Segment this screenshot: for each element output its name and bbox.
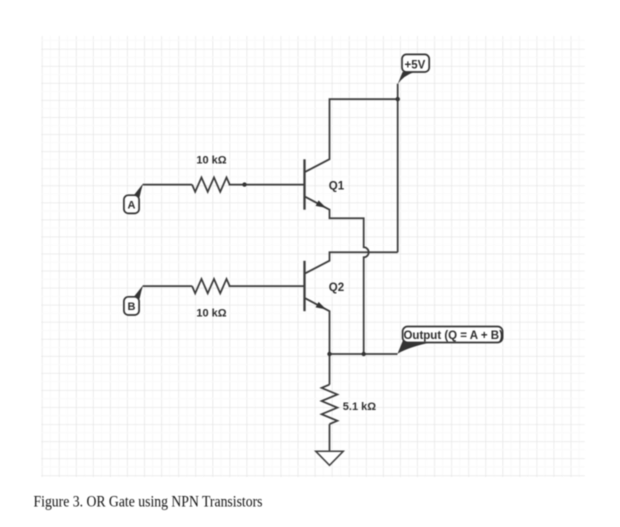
svg-text:5.1 kΩ: 5.1 kΩ [343,401,376,413]
svg-text:10 kΩ: 10 kΩ [196,307,226,319]
svg-text:+5V: +5V [405,59,426,71]
svg-text:10 kΩ: 10 kΩ [196,155,226,167]
svg-text:Output (Q = A + B): Output (Q = A + B) [403,330,503,342]
svg-text:B: B [128,301,136,313]
svg-text:Figure 3. OR Gate using NPN Tr: Figure 3. OR Gate using NPN Transistors [34,494,263,511]
svg-text:Q1: Q1 [329,180,345,192]
svg-text:A: A [128,200,136,212]
svg-text:Q2: Q2 [329,282,344,294]
